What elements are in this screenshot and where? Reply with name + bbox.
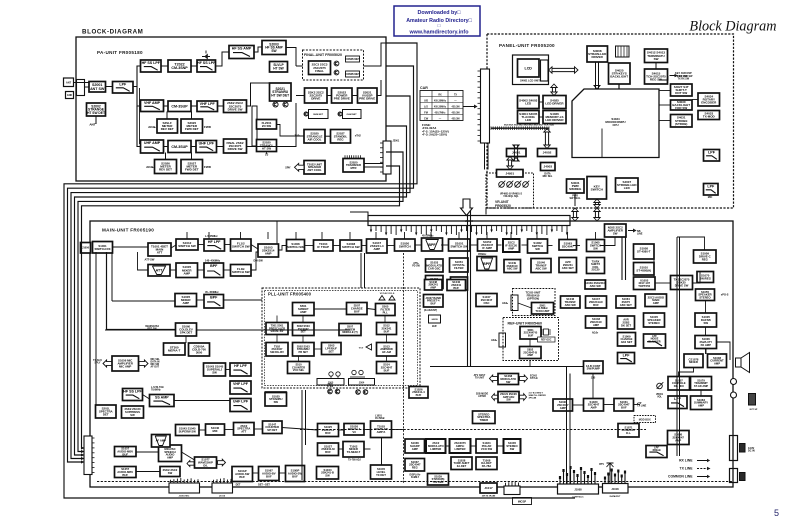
bias net A [309, 110, 329, 119]
svg-text:ANT SW: ANT SW [90, 87, 105, 91]
svg-text:CM-3SUP: CM-3SUP [171, 145, 188, 149]
J4001 connector [507, 149, 527, 157]
svg-text:AMP: AMP [675, 438, 681, 442]
svg-text:(OPTION): (OPTION) [527, 297, 539, 301]
svg-text:TOPT250: TOPT250 [638, 284, 650, 288]
svg-text:BPF: BPF [210, 296, 218, 300]
mic speech audio [159, 445, 182, 462]
label vol right [656, 394, 664, 399]
wire pre-drive out [377, 80, 381, 96]
label mic sp [518, 500, 527, 503]
label ANT [89, 123, 95, 127]
wire car to connector [463, 106, 468, 108]
wire lim row4 [497, 445, 504, 447]
wire under J1009 [350, 212, 368, 216]
wire fl2001 link [277, 125, 305, 137]
svg-text:FOR SW: FOR SW [675, 106, 687, 110]
S1065 fm if [587, 240, 605, 252]
label det b [258, 484, 270, 487]
svg-text:AMP: AMP [300, 310, 306, 314]
svg-text:LED DRIVER: LED DRIVER [545, 118, 564, 122]
SLVLP switch [270, 62, 288, 73]
BPF 45.05 [422, 238, 443, 251]
wire row2 a [138, 252, 149, 270]
meter rev det [157, 119, 178, 133]
crystal filter 455 [450, 258, 469, 272]
mic sp label box [513, 498, 532, 505]
svg-text:MIXER: MIXER [689, 360, 698, 364]
meter fwd det [181, 119, 203, 133]
svg-text:450kHz: 450kHz [652, 449, 661, 452]
wire nois down a [621, 237, 623, 280]
arrow key out [670, 74, 678, 78]
label adj tcxo [502, 302, 509, 305]
wire det drop uhf b [191, 153, 193, 160]
svg-text:RTV: RTV [599, 463, 604, 466]
ATV antenna [599, 463, 613, 484]
wire pll col b [302, 336, 304, 343]
arrow adj right [520, 394, 527, 401]
connector J2001 pa edge [380, 141, 391, 174]
svg-text:78.6MHz: 78.6MHz [151, 389, 161, 392]
S1067 audio row B [259, 467, 280, 481]
wire r1 l13 [497, 244, 502, 246]
att amp trap [148, 265, 170, 277]
varactor symbols group B [350, 370, 365, 377]
wire tx2 1 [339, 448, 344, 450]
svg-text:BUF: BUF [593, 303, 599, 307]
svg-text:DRIVE SW: DRIVE SW [228, 107, 243, 111]
wire hf amp to ss amp [254, 47, 262, 52]
svg-text:VHF LPF: VHF LPF [233, 382, 249, 386]
final transistor Q2 [334, 70, 339, 75]
svg-text:BLANKER: BLANKER [648, 340, 660, 343]
svg-text:J1006: J1006 [82, 247, 90, 250]
wire bottom chain 1 [143, 395, 150, 400]
J1017 connector [480, 483, 497, 493]
svg-text:LPF: LPF [674, 397, 682, 401]
svg-text:25F-M 3R-4M: 25F-M 3R-4M [482, 495, 496, 498]
wire s4015 to cpu [659, 76, 668, 80]
final transistors 2SC2075 [309, 61, 331, 75]
svg-text:21.4M: 21.4M [327, 385, 333, 388]
wire transfer to connector a [364, 163, 383, 165]
arrow waveship [218, 459, 226, 466]
S505 filter pll [376, 304, 396, 316]
panel right IF2 [671, 100, 693, 110]
wire pre-drive chain [327, 95, 332, 97]
label adj ref [491, 339, 498, 342]
wire hf chain 2 [191, 65, 197, 67]
label ssb mode [476, 394, 489, 399]
legend common arrow [697, 475, 710, 479]
legend tx arrow [697, 467, 711, 470]
wire txrow 2 [225, 429, 234, 431]
label adj right [592, 332, 599, 335]
svg-text:SW: SW [274, 400, 279, 404]
svg-text:AIR COOL: AIR COOL [308, 137, 322, 141]
svg-text:BPF: BPF [483, 262, 491, 266]
comb connector J1012 [504, 481, 520, 495]
arrow waveship left [187, 461, 194, 467]
S1049 switch buf [451, 277, 468, 290]
svg-text:PRE DRIVE: PRE DRIVE [334, 97, 350, 101]
wire pwr up [574, 193, 576, 206]
T1008 da det [476, 457, 497, 470]
pot VOL right [657, 382, 664, 389]
svg-text:REV DET: REV DET [161, 127, 174, 131]
filter/ant switch S2001 [89, 82, 106, 93]
connector ANT jack lower [66, 92, 74, 99]
2SK2 2SC2075 drive [305, 88, 328, 103]
LCD display [518, 59, 540, 77]
wire pa mixer [705, 349, 707, 355]
svg-text:FILTER: FILTER [454, 266, 463, 270]
arrow panel main 1 [572, 208, 578, 221]
svg-text:5: 5 [774, 508, 779, 518]
PA-UNIT container box [76, 37, 386, 181]
noise amp [605, 224, 627, 237]
svg-text:ADJ SET: ADJ SET [621, 340, 633, 344]
FINAL-UNIT container box [303, 50, 364, 80]
connector J-41 [730, 469, 738, 483]
svg-text:(STROB): (STROB) [675, 122, 688, 126]
svg-text:SW/REG: SW/REG [569, 187, 582, 191]
S1039 tx3 amp [428, 474, 449, 486]
S513 amp mod [377, 343, 397, 357]
wire speaker wire [717, 342, 731, 360]
S1010 ST-4580H [634, 263, 655, 276]
svg-text:BU0 BU1 BU2 BU3 BU4 BU5 BU6 BU: BU0 BU1 BU2 BU3 BU4 BU5 BU6 BU7 SCK SDA [504, 124, 554, 127]
power plug dark box [740, 444, 746, 453]
svg-text:IF AMP: IF AMP [482, 246, 492, 250]
svg-text:FWD DET: FWD DET [185, 168, 199, 172]
label d-adjust [424, 309, 437, 312]
wire ss amp out [286, 48, 296, 67]
label display family [410, 474, 422, 480]
wire pll col a [276, 335, 278, 343]
resistor stack P4001 [616, 46, 630, 57]
svg-text:SW: SW [506, 380, 511, 384]
svg-text:SW: SW [271, 49, 277, 53]
svg-text:SW: SW [130, 413, 135, 417]
svg-text:BUF: BUF [384, 368, 390, 372]
wire nois down b [625, 237, 627, 280]
transistor below J504 [356, 390, 361, 395]
svg-text:SWITCH RX: SWITCH RX [94, 247, 110, 251]
svg-text:HT SW: HT SW [273, 67, 284, 71]
svg-text:ADJ▸: ADJ▸ [502, 302, 509, 305]
wire right vert bus B [679, 237, 681, 456]
S1029 amp [553, 399, 573, 411]
wire pll s512 s513 [386, 335, 388, 343]
svg-text:ST-AD AMP: ST-AD AMP [694, 384, 709, 388]
svg-text:FWD: FWD [204, 125, 212, 129]
wire vhf drive out [247, 83, 270, 106]
svg-text:DET • DET: DET • DET [258, 484, 270, 487]
svg-text:UHF LPF: UHF LPF [233, 400, 249, 404]
svg-text:STEREO: STEREO [699, 296, 711, 300]
label J4003 [543, 173, 553, 179]
svg-text:J4001: J4001 [512, 151, 521, 155]
wire uhf chain 2 [191, 146, 196, 148]
wire r1 l4 [225, 244, 231, 246]
wire hf chain 1 [161, 65, 168, 67]
J4003 connector [541, 163, 556, 171]
arrow CPU to J4001 [513, 145, 519, 161]
svg-text:45.7MHz: 45.7MHz [375, 417, 385, 420]
2SC2 audio main amp [645, 294, 667, 307]
vcv arrow [359, 344, 372, 350]
svg-text:BLOCK-DIAGRAM: BLOCK-DIAGRAM [82, 29, 143, 36]
S10xx audio row C [286, 466, 305, 482]
S1037 reg [405, 459, 425, 472]
svg-text:DATA/PKT: DATA/PKT [610, 495, 621, 498]
PWR switch [567, 179, 585, 193]
S1008 ST-4580 [634, 244, 655, 259]
S1045 level det [371, 465, 392, 479]
S507 charge buf [347, 303, 368, 315]
S1068 modulatory sw [498, 374, 519, 385]
PANEL-UNIT container box [487, 34, 734, 208]
LPF noise blanker [644, 334, 666, 348]
svg-text:TX-MOD: TX-MOD [703, 115, 716, 119]
S1057 audio buf A [115, 447, 137, 457]
BPF row3 [204, 295, 224, 309]
svg-text:DRIVE: DRIVE [311, 97, 320, 101]
wire right col d [693, 272, 701, 284]
arrow J4951 to J4001 [507, 157, 513, 170]
S1030 amp [584, 399, 604, 412]
svg-text:DRIVER: DRIVER [592, 55, 604, 59]
svg-text:MODULE (T): MODULE (T) [342, 330, 357, 334]
vertical wires left of tx chain [301, 390, 303, 480]
svg-text:J1009: J1009 [465, 219, 473, 223]
svg-text:Block Diagram: Block Diagram [689, 19, 776, 35]
svg-text:Downloaded by□: Downloaded by□ [417, 10, 461, 16]
svg-text:LED: LED [525, 118, 532, 122]
svg-text:HT SW: HT SW [262, 147, 272, 151]
svg-text:455.30MHz: 455.30MHz [434, 99, 447, 102]
phone jack upper [731, 379, 737, 385]
wire txrow 7 [392, 429, 405, 431]
svg-text:LPF: LPF [623, 354, 631, 358]
svg-text:J1016 MIC: J1016 MIC [179, 496, 190, 498]
wire row3 a [112, 300, 175, 302]
svg-text:SWITCH SW: SWITCH SW [450, 245, 468, 249]
pot RF [515, 181, 522, 188]
wire r1 l1 [113, 246, 149, 248]
wire bus up cpu [601, 129, 603, 158]
svg-text:UHF AMP: UHF AMP [144, 141, 161, 145]
svg-text:LPF: LPF [119, 83, 127, 87]
S2020 strangle air cool [304, 130, 325, 144]
arrow S4008 vertical [594, 62, 600, 89]
label j1018 [610, 495, 621, 498]
wire dafsb pa [705, 327, 707, 336]
svg-text:REF-OSC: REF-OSC [541, 340, 552, 342]
svg-text:PR SET: PR SET [298, 350, 308, 354]
S1079 transmit amp [691, 377, 712, 391]
wire s1029 row2 [604, 404, 615, 406]
UHF LPF [196, 141, 217, 153]
J504 connector [349, 379, 375, 386]
svg-text:PANEL-UNIT FR005200: PANEL-UNIT FR005200 [499, 43, 555, 48]
svg-text:SP DET: SP DET [267, 428, 277, 432]
svg-text:ATT: ATT [156, 269, 164, 273]
TCXO-UNIT container box [513, 289, 556, 316]
svg-text:3000: 3000 [196, 351, 203, 355]
label j1017 [482, 495, 496, 498]
svg-text:COMMON LINE: COMMON LINE [668, 475, 693, 479]
transistor bias B [338, 112, 342, 116]
arrow panel main 2 [594, 208, 600, 221]
wire pll counter [298, 356, 300, 362]
VCO arrows [379, 293, 395, 300]
thermal switch symbol [202, 51, 210, 60]
S4012 S4013 terminate SW [645, 49, 668, 63]
svg-text:ATT-SW: ATT-SW [145, 258, 155, 262]
BPF row2 [204, 263, 224, 278]
wire lpf out split [133, 66, 141, 87]
label arrb [412, 262, 420, 268]
wire s505 s512 [384, 316, 386, 323]
svg-text:LINE: LINE [637, 233, 643, 236]
svg-text:2SC4047: 2SC4047 [562, 244, 574, 248]
wire fl strip [256, 123, 259, 125]
svg-text:J1015: J1015 [219, 496, 226, 498]
label tx708 [348, 459, 361, 462]
comb connector J1015 [212, 478, 233, 493]
svg-text:SS AMP: SS AMP [155, 396, 169, 400]
svg-text:45.05MHz: 45.05MHz [422, 235, 434, 238]
S1057 audio buf B [115, 467, 137, 478]
wire vhf chain 1 [164, 105, 169, 107]
PLL mid col B [293, 343, 315, 357]
svg-text:HF SS AMP: HF SS AMP [232, 47, 252, 51]
label pll refer [529, 393, 547, 400]
wire filter to lpf [106, 86, 113, 88]
wire strangle to standbl [325, 135, 331, 137]
wire det drop vhf b [191, 112, 193, 120]
wire s1031 out [634, 404, 641, 406]
CM-3SUP vhf [168, 101, 191, 112]
wire pll charge filter [367, 309, 376, 310]
FL1B switch [231, 265, 252, 277]
svg-text:AMP: AMP [412, 447, 418, 451]
svg-text:TX DET: TX DET [376, 473, 386, 477]
wire lim row [425, 445, 427, 447]
svg-text:J1018: J1018 [611, 487, 619, 491]
svg-text:BUF: BUF [416, 393, 422, 397]
svg-text:BUF: BUF [432, 326, 437, 328]
2SC21 amp adj sw [498, 392, 519, 403]
svg-text:ATT: ATT [241, 430, 246, 434]
wire relay to filter [85, 86, 89, 88]
wire uhf chain 1 [164, 146, 169, 148]
S1055 buf [426, 276, 444, 289]
svg-text:BUF: BUF [122, 473, 128, 477]
svg-text:SPK DET: SPK DET [180, 331, 193, 335]
antenna relay box [77, 80, 85, 96]
panel LPF A [704, 150, 720, 162]
S1008 current amp [708, 354, 727, 368]
S852 ref amp [520, 347, 542, 359]
svg-text:ENCODER: ENCODER [701, 101, 717, 105]
J505 connector [317, 379, 344, 386]
S1062 switch [528, 239, 548, 253]
S4008 strain LED driver [587, 46, 608, 62]
svg-text:ABC SET: ABC SET [620, 303, 632, 307]
S1027 buf [318, 443, 339, 456]
svg-text:AMP: AMP [590, 406, 596, 410]
wire r1 l5 [251, 245, 258, 250]
svg-text:AMP: AMP [698, 404, 704, 408]
S1055 speaker stereo [696, 289, 715, 301]
arrow mic left [103, 360, 112, 367]
wire mix console [679, 368, 694, 377]
svg-text:SW: SW [510, 447, 515, 451]
svg-text:(D-ADJUST): (D-ADJUST) [424, 309, 437, 312]
S1003 amp [258, 244, 279, 257]
meter rev det uhf [155, 160, 177, 174]
UHF AMP filter [141, 140, 164, 153]
TX drive switch [671, 276, 693, 290]
label 45.05MHz [422, 235, 434, 238]
svg-text:MIC SEL: MIC SEL [543, 175, 553, 178]
FL2001 IO switch [257, 120, 277, 130]
svg-text:AMP: AMP [560, 406, 566, 410]
wire s1079 down [700, 390, 702, 396]
svg-text:BUF: BUF [239, 475, 245, 479]
wire uhf chain 3 [217, 146, 224, 148]
meter fwd det uhf [181, 160, 203, 174]
arrow conn LCD [551, 84, 557, 96]
long wire left to S1060 [107, 329, 176, 331]
wire split pair [139, 88, 141, 144]
svg-text:MIX: MIX [212, 429, 217, 433]
S1040 buf [447, 280, 466, 291]
S1007 console mix [668, 377, 690, 391]
wire lim row2 [446, 445, 450, 447]
amp limiter [450, 439, 471, 453]
wire row3 c [224, 299, 263, 301]
T2022 spk ant cool [304, 161, 325, 175]
label bus [504, 124, 554, 127]
transistor bias A [304, 112, 308, 116]
svg-text:EXT SP: EXT SP [750, 409, 758, 411]
svg-text:ST-4580-T: ST-4580-T [637, 250, 651, 254]
svg-text:PD SW: PD SW [412, 266, 420, 268]
LCD unit outer box [513, 55, 549, 85]
BPF 455 second [477, 257, 497, 271]
svg-text:GND: GND [67, 94, 73, 97]
svg-text:ADJ▸: ADJ▸ [592, 332, 599, 335]
T1001 main att [148, 243, 171, 256]
label pots [500, 193, 522, 199]
AVR DK set [618, 316, 635, 329]
svg-text:AMP: AMP [653, 301, 659, 305]
wire tx dashed bus [300, 429, 646, 431]
S512 buf [377, 323, 397, 335]
svg-text:BPF: BPF [210, 264, 218, 268]
ref connector [499, 333, 506, 347]
svg-text:CPU: CPU [612, 123, 618, 127]
AVR abc set mid [559, 258, 577, 273]
svg-text:AMP: AMP [183, 271, 190, 275]
wire txrow 5 [339, 429, 345, 431]
S1005 dafsb [695, 313, 717, 327]
